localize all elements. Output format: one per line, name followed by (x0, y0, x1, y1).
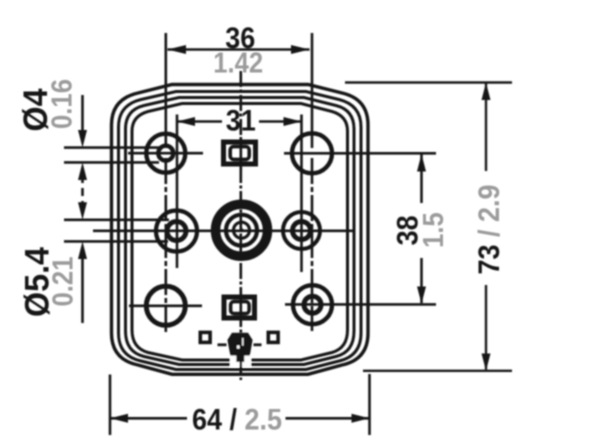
arrowhead 73 top (482, 83, 491, 101)
svg-text:0.16: 0.16 (45, 79, 78, 129)
earth tab hexagon (227, 333, 252, 362)
hole bottom-left (146, 286, 185, 325)
svg-text:1.42: 1.42 (213, 46, 263, 79)
arrowhead 36 right (291, 45, 310, 54)
slot top-center inner (230, 147, 249, 160)
dimension 36 / 1.42 (166, 33, 312, 148)
centerline top row left (128, 152, 203, 155)
dimension dia-5.4 / 0.21 (64, 220, 169, 323)
center port thick ring (216, 204, 268, 256)
dimension 31 (177, 115, 302, 273)
hole top-left outer (146, 134, 185, 173)
dimension 64 / 2.5 (110, 374, 370, 435)
dimension 38 / 1.5 (420, 155, 423, 304)
hole bottom-right inner (304, 296, 321, 313)
hole middle-right outer (283, 212, 320, 249)
arrowhead 73 bottom (482, 354, 491, 371)
svg-text:1.5: 1.5 (417, 212, 450, 248)
arrowhead 64 right (352, 414, 370, 423)
hole middle-left outer (156, 211, 197, 252)
hole middle-right inner (293, 222, 311, 240)
centerline segment across bottom slot (240, 292, 243, 324)
centerline bottom row right / 38 ext bottom (285, 303, 436, 306)
centerline bottom row left (129, 304, 202, 307)
centerline right column (311, 158, 314, 331)
hole bottom-right outer (293, 285, 332, 324)
earth tab side ticks (218, 343, 262, 346)
body outline 4 inner (132, 104, 348, 361)
hole middle-left inner (167, 222, 186, 241)
arrowhead 31 right (284, 117, 302, 126)
arrowhead 38 bottom (417, 287, 426, 304)
center port dot (240, 228, 244, 232)
arrowhead dia4 lower (78, 162, 87, 180)
center port middle circle (226, 215, 257, 246)
body outline outer (112, 85, 369, 375)
dimension dia-4 / 0.16 (64, 95, 160, 206)
centerline left column (165, 158, 168, 333)
arrowhead dia4 upper (78, 130, 87, 148)
square bottom-left (200, 332, 210, 342)
centerline top row right / 38 ext top (284, 152, 436, 155)
centerline segment across top slot (240, 137, 243, 170)
body outline 3 (126, 98, 355, 365)
dimension 73 / 2.9 (345, 83, 512, 371)
centerline middle row (93, 230, 354, 233)
square bottom-right (268, 332, 278, 342)
body outline 2 (119, 92, 362, 370)
notch in bottom outlines (230, 355, 251, 367)
svg-text:0.21: 0.21 (46, 257, 79, 307)
hole top-left inner (158, 146, 173, 161)
arrowhead 31 left (177, 117, 195, 126)
svg-text:73 / 2.9: 73 / 2.9 (473, 184, 507, 274)
center port inner circle (234, 222, 250, 238)
centerline center column (240, 71, 243, 380)
hole top-right (292, 133, 332, 173)
arrowhead dia5.4 upper (78, 202, 87, 220)
centerlines (93, 71, 436, 380)
arrowhead 64 left (110, 414, 128, 423)
slot bottom-center inner (231, 302, 250, 314)
svg-text:64 / 2.5: 64 / 2.5 (192, 403, 282, 437)
slot bottom-center outer (224, 297, 255, 318)
slot top-center outer (224, 142, 256, 164)
svg-text:31: 31 (226, 104, 256, 138)
arrowhead 38 top (417, 154, 426, 172)
arrowhead dia5.4 lower (78, 241, 87, 259)
arrowhead 36 left (168, 45, 187, 54)
